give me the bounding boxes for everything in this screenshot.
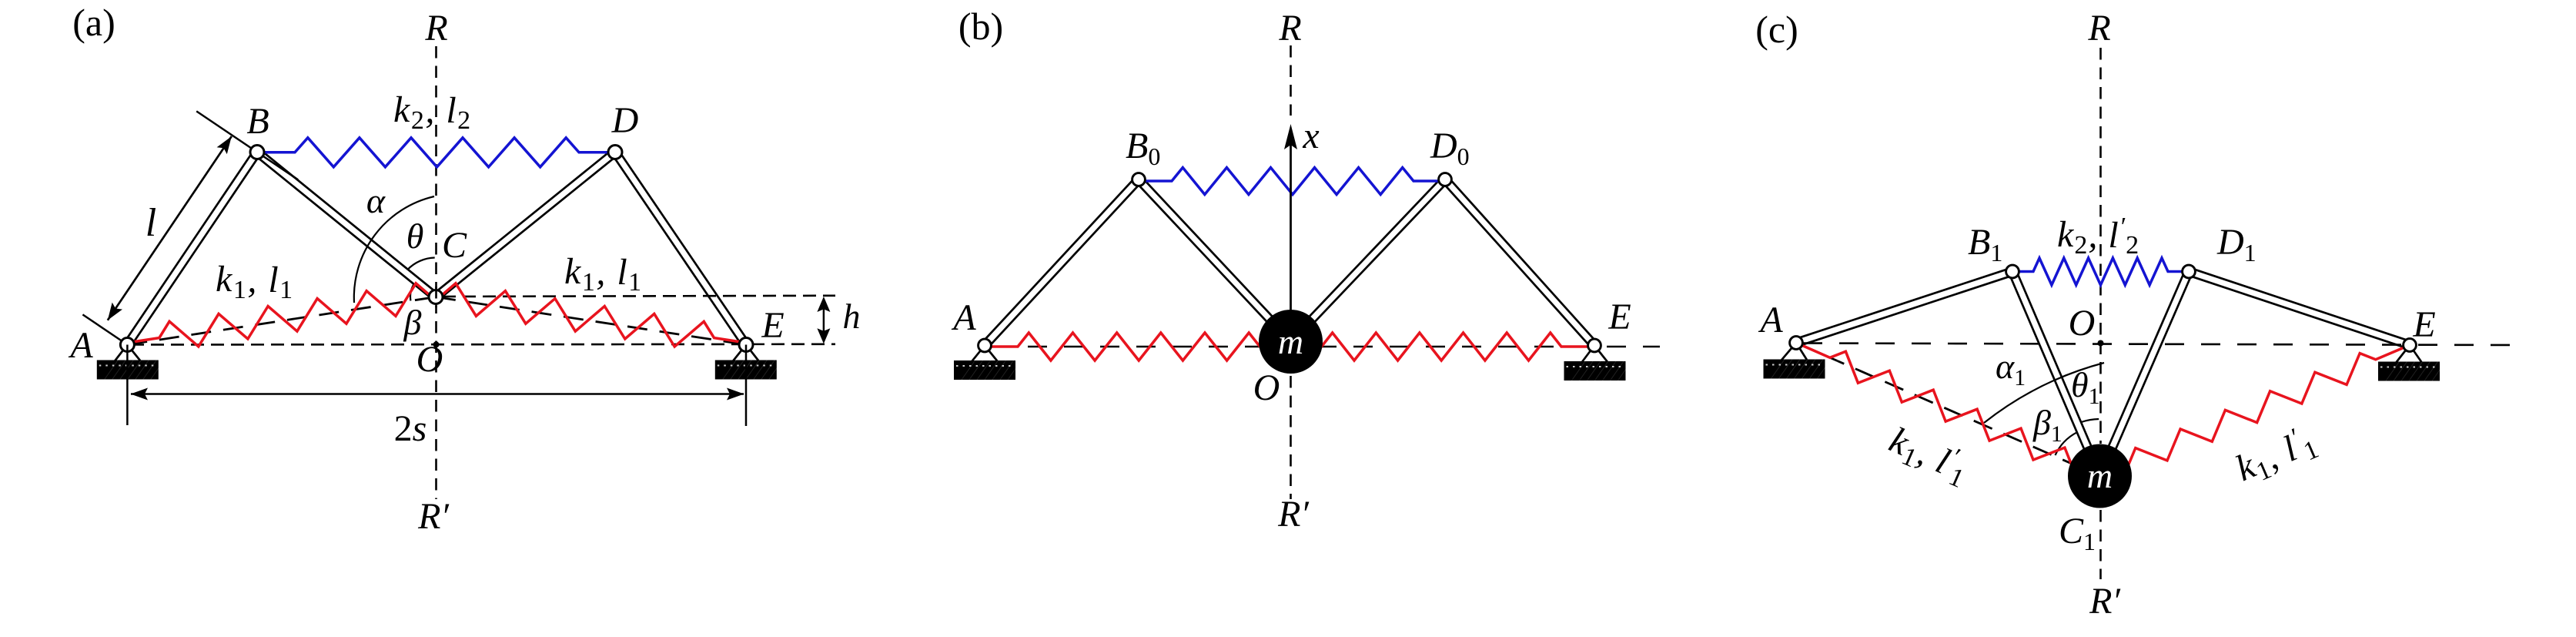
svg-text:E: E xyxy=(761,305,784,346)
2s dimension line xyxy=(131,393,744,395)
angle arc alpha1 xyxy=(1984,363,2104,423)
support at A (c) xyxy=(1764,343,1839,379)
baseline dashed A-E (c) xyxy=(1803,344,2517,346)
bar B0-m xyxy=(1142,177,1294,340)
spring k1 l1 right (red) xyxy=(436,283,746,347)
spring k1 right (red, c) xyxy=(2100,345,2410,476)
svg-text:B: B xyxy=(246,101,269,142)
point O dot xyxy=(433,341,440,347)
bar B1-m xyxy=(2016,270,2104,475)
bar m-D1 xyxy=(2096,270,2186,475)
baseline dashed A-E (b) xyxy=(992,346,1660,348)
spring k1 left (red, b) xyxy=(985,333,1291,360)
svg-text:θ: θ xyxy=(406,216,424,256)
svg-text:A: A xyxy=(68,325,93,366)
svg-text:R′: R′ xyxy=(1277,494,1310,535)
joint E (c) xyxy=(2404,339,2417,352)
svg-text:E: E xyxy=(1607,297,1631,337)
support at A xyxy=(97,345,172,380)
support at E xyxy=(715,345,791,380)
joint B xyxy=(250,146,264,159)
joint B0 xyxy=(1132,173,1146,186)
svg-text:h: h xyxy=(843,297,861,336)
spring k2 l2 (blue) xyxy=(257,138,615,167)
svg-text:A: A xyxy=(1758,300,1783,340)
2s extension line below E xyxy=(745,345,748,427)
axis R-Rp dashed vertical (b) top xyxy=(1290,45,1292,116)
svg-text:R: R xyxy=(424,8,447,49)
angle arc beta xyxy=(410,283,414,300)
svg-text:O: O xyxy=(417,339,443,380)
bar m-D0 xyxy=(1288,177,1443,340)
axis dash over joint C xyxy=(435,287,437,307)
joint D xyxy=(608,146,622,159)
spring axis dashed A-m (c) xyxy=(1796,343,2100,476)
angle arc theta1 xyxy=(2081,419,2099,422)
svg-text:D: D xyxy=(611,100,639,141)
svg-text:l: l xyxy=(146,201,156,245)
x axis arrow line xyxy=(1290,129,1292,341)
axis R-Rp dashed vertical (c) top xyxy=(2099,48,2102,444)
svg-text:α: α xyxy=(366,181,386,220)
svg-text:R′: R′ xyxy=(2089,581,2121,622)
svg-text:m: m xyxy=(2087,456,2113,495)
axis R-Rp dashed vertical xyxy=(435,46,437,499)
mass m circle (c) xyxy=(2068,444,2132,508)
svg-text:O: O xyxy=(2069,303,2096,344)
svg-text:C: C xyxy=(442,225,467,266)
joint D1 xyxy=(2183,265,2196,278)
baseline dashed through A O E xyxy=(131,343,835,345)
support at E (c) xyxy=(2378,345,2454,381)
bar D0-E xyxy=(1448,177,1597,344)
bar DE xyxy=(618,150,749,343)
svg-text:(c): (c) xyxy=(1755,8,1798,51)
l dimension double arrow line xyxy=(108,136,232,320)
bar A-B0 xyxy=(982,177,1136,344)
2s extension line below A xyxy=(126,345,129,426)
joint D0 xyxy=(1439,173,1452,186)
axis R-Rp dashed vertical (b) bottom xyxy=(1290,376,1292,499)
svg-text:(b): (b) xyxy=(958,5,1003,48)
joint A (c) xyxy=(1790,337,1803,350)
spring axis dashed A-C xyxy=(127,297,436,345)
l dimension tick at B xyxy=(196,111,298,179)
joint B1 xyxy=(2006,265,2019,278)
svg-text:m: m xyxy=(1278,322,1303,361)
svg-text:O: O xyxy=(1253,367,1280,408)
spring axis dashed C-E xyxy=(436,297,746,345)
bar D1-E xyxy=(2190,268,2411,342)
support at A (b) xyxy=(954,346,1029,381)
spring k1 left (red, c) xyxy=(1796,343,2100,476)
svg-text:R: R xyxy=(1278,8,1301,49)
joint E xyxy=(739,338,753,352)
svg-text:A: A xyxy=(951,297,976,338)
support at E (b) xyxy=(1564,346,1640,381)
joint C xyxy=(429,290,443,304)
mass m circle (b) xyxy=(1259,310,1323,374)
svg-text:R: R xyxy=(2087,8,2110,49)
bar AB xyxy=(124,150,254,343)
svg-text:(a): (a) xyxy=(72,1,115,44)
svg-text:β: β xyxy=(403,303,422,342)
joint E (b) xyxy=(1588,339,1601,352)
bar A-B1 xyxy=(1795,268,2011,340)
spring k2 (blue, c) xyxy=(2012,258,2189,285)
point O dot (c) xyxy=(2098,340,2104,347)
l dimension tick at A xyxy=(82,314,127,344)
bar CD xyxy=(433,149,613,294)
bar BC xyxy=(259,149,438,294)
spring k1 l1 left (red) xyxy=(127,283,436,347)
angle arc alpha xyxy=(354,196,434,303)
joint A (b) xyxy=(979,339,992,352)
h dimension double arrow xyxy=(823,300,825,341)
svg-text:2s: 2s xyxy=(394,408,427,449)
axis R-Rp dashed vertical (c) bottom xyxy=(2099,510,2102,579)
svg-text:x: x xyxy=(1302,116,1319,156)
C-level dashed line xyxy=(443,296,835,297)
svg-text:E: E xyxy=(2412,304,2435,345)
joint A xyxy=(120,338,134,352)
svg-text:R′: R′ xyxy=(417,496,450,537)
spring k1 right (red, b) xyxy=(1291,333,1595,360)
spring k2 (blue, b) xyxy=(1139,168,1445,195)
angle arc beta1 xyxy=(2056,432,2077,455)
angle arc theta xyxy=(407,258,434,270)
